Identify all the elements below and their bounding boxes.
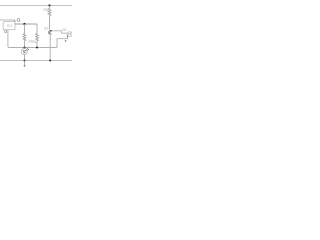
node dot R1 branch: [36, 46, 38, 48]
Q1 emitter diagonal with arrow: [49, 32, 51, 34]
wire collector to motor (jog): [52, 31, 68, 33]
wire y=24 from U1 to R1 branch: [15, 23, 37, 25]
svg-text:M1: M1: [63, 28, 68, 32]
transistor Q1: [44, 26, 52, 35]
wire R2 bottom: [24, 41, 26, 48]
motor M1 circle: [67, 32, 72, 37]
node dot R3 top at +V rail: [48, 4, 50, 6]
wire R2 branch top: [24, 24, 26, 34]
LED arrows: [27, 48, 29, 50]
switch S1 contact circle: [17, 19, 20, 22]
LED D1 circle: [21, 49, 27, 55]
M letter inside motor: [69, 33, 71, 35]
ground arrow: [23, 65, 26, 67]
svg-text:IC1: IC1: [7, 24, 12, 28]
wire LED bottom to rail: [24, 55, 26, 61]
LED triangle: [23, 50, 26, 52]
wire emitter down to rail: [49, 35, 51, 61]
node dot motor bottom: [67, 35, 69, 37]
svg-text:R3: R3: [44, 8, 48, 12]
wire corner at R1 branch: [36, 24, 38, 34]
LED bar: [23, 52, 26, 54]
wire R1 bottom: [36, 41, 38, 48]
wire base/output bus y=47.5: [8, 30, 57, 48]
node dot LED-rail: [23, 59, 25, 61]
ground stem: [24, 61, 26, 66]
node dot emitter-rail: [49, 59, 51, 61]
node dot LED branch: [23, 46, 25, 48]
resistor R3: [48, 9, 51, 16]
wire R3 top: [49, 6, 51, 9]
wire +V rail top: [0, 5, 72, 7]
resistor R1: [36, 34, 39, 41]
wire R3 bottom to Q1 collector: [49, 16, 51, 31]
pin terminal circle below U1: [5, 30, 7, 32]
wire bus to motor bottom: [57, 36, 68, 47]
Q1 collector blob: [50, 30, 52, 32]
wire corner down into node: [14, 20, 16, 24]
svg-text:R1: R1: [33, 40, 37, 44]
wire left input at y=20: [0, 19, 15, 21]
svg-text:Q1: Q1: [44, 26, 48, 30]
op-amp U1 (IC box): [3, 22, 15, 30]
resistor R2: [23, 34, 26, 41]
polarity mark under motor wire: [65, 40, 67, 42]
node junction dot at (24.5,24): [23, 23, 25, 25]
Q1 base bar: [48, 31, 50, 35]
wire LED top: [24, 48, 26, 49]
wire 0V rail bottom: [0, 60, 72, 62]
